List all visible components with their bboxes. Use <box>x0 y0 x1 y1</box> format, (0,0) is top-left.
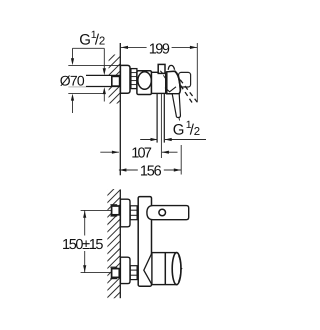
dim 107 <box>100 151 119 153</box>
wall line (side view) <box>119 190 121 299</box>
G1/2 socket square <box>112 76 120 86</box>
knob end cap ellipse <box>172 253 181 285</box>
cone transition to knob <box>144 253 152 285</box>
lever pivot dome <box>168 65 174 69</box>
svg-text:G: G <box>173 122 185 139</box>
hub right edge (thick) <box>175 71 180 90</box>
hub inner contour <box>165 87 176 92</box>
knob end cap inner arc <box>179 256 181 282</box>
dim G1/2 bottom (outlet) <box>140 139 157 141</box>
lever arm hole <box>159 209 166 216</box>
label G 1/2 (outlet) <box>173 119 200 139</box>
body column <box>138 197 151 287</box>
svg-text:199: 199 <box>149 42 170 58</box>
dim G1/2 top: bracket and leaders <box>73 48 105 113</box>
knob end nub <box>181 267 183 270</box>
dim 199 arrows <box>121 46 128 49</box>
wall line (top view, also extension line for dims 199/107/156) <box>119 43 121 175</box>
dim 150±15 extension lines <box>81 209 112 211</box>
svg-text:2: 2 <box>194 126 200 138</box>
dim 156 arrows <box>119 168 126 171</box>
dim 150±15 arrows <box>83 211 86 218</box>
label 156 <box>138 164 164 176</box>
cartridge block <box>152 72 166 93</box>
199 right extension line <box>196 43 198 102</box>
lever arm (side view) <box>147 206 189 220</box>
hex nut lower <box>110 267 119 278</box>
shower outlet tube (downward) <box>156 94 158 143</box>
dim G1/2 outlet arrows <box>151 138 158 141</box>
wall hatching (top view) <box>96 36 126 124</box>
dim 107 arrows <box>112 151 119 154</box>
lever handle bar (solid position) <box>172 94 180 118</box>
label 107 <box>128 146 154 158</box>
body circle <box>138 72 152 90</box>
label 199 <box>147 41 172 54</box>
knob cylinder <box>152 253 177 285</box>
body flange block <box>137 71 152 95</box>
union nut lower (side view) <box>130 266 137 280</box>
dim Ø70 extension line top <box>68 64 120 66</box>
escutcheon upper (side view) <box>120 199 130 227</box>
svg-text:107: 107 <box>131 145 152 161</box>
lever hub <box>167 71 181 94</box>
tube center line / 107 extension <box>160 94 162 158</box>
escutcheon (top view) <box>120 65 130 93</box>
lever handle (dashed swivel position) <box>180 80 197 103</box>
bar tip tick <box>178 118 181 121</box>
top knob <box>158 64 165 73</box>
dim 150±15 <box>84 210 86 235</box>
escutcheon lower (side view) <box>120 257 130 283</box>
wall hatching (side view) <box>95 168 128 318</box>
union nut (top view) <box>131 69 137 89</box>
lever end cap <box>179 72 191 87</box>
arrows: G1/2 + Ø70 pointers <box>71 58 74 65</box>
tick between knob and hub <box>163 75 166 80</box>
dim 199 <box>120 46 197 48</box>
knob diagonal tick <box>160 71 163 74</box>
hex nut upper <box>110 205 119 216</box>
label Ø70 <box>59 74 86 87</box>
svg-text:150±15: 150±15 <box>62 237 104 253</box>
supply pipe in wall <box>68 75 120 86</box>
svg-text:156: 156 <box>140 163 162 179</box>
svg-text:Ø70: Ø70 <box>60 73 85 89</box>
dim Ø70 extension line bottom <box>68 92 104 94</box>
dim 156 <box>119 169 181 171</box>
union nut upper (side view) <box>130 206 137 220</box>
svg-text:G: G <box>79 32 91 49</box>
label G 1/2 (top) <box>79 29 105 48</box>
svg-text:2: 2 <box>99 36 105 48</box>
